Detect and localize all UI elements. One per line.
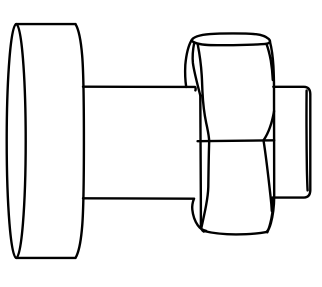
- nut lower-left outer silhouette J-curve: [192, 199, 206, 231]
- nut front mid edge line: [198, 139, 275, 142]
- bolt head top silhouette line: [16, 23, 75, 25]
- nut lower-right outer silhouette J-curve: [267, 198, 273, 233]
- bolt head left face ellipse: [7, 24, 26, 258]
- nut upper-left outer silhouette: [185, 40, 191, 87]
- nut upper-right chamfer arc to mid apex: [264, 111, 275, 140]
- bolt tip cylinder outline: [273, 87, 311, 198]
- nut lower-right chamfer arc: [264, 140, 272, 211]
- nut upper-left facet edge S-curve: [193, 43, 201, 96]
- shank top silhouette line: [83, 87, 196, 91]
- nut top facet sliver outline: [192, 33, 271, 45]
- bolt head right silhouette arc: [76, 24, 84, 258]
- nut right facet vertical edge: [267, 87, 274, 232]
- nut upper-right outer silhouette: [270, 42, 274, 87]
- nut lower-left chamfer arc: [201, 141, 209, 228]
- bolt head bottom silhouette line: [16, 257, 75, 259]
- nut upper-right facet edge curve: [266, 44, 272, 80]
- shank bottom silhouette line: [83, 197, 194, 200]
- bolt tip chamfer edge line: [307, 91, 308, 191]
- nut upper-left chamfer arc to mid apex: [198, 45, 209, 142]
- nut bottom silhouette edge: [204, 231, 267, 234]
- nut left facet vertical edge: [200, 96, 204, 232]
